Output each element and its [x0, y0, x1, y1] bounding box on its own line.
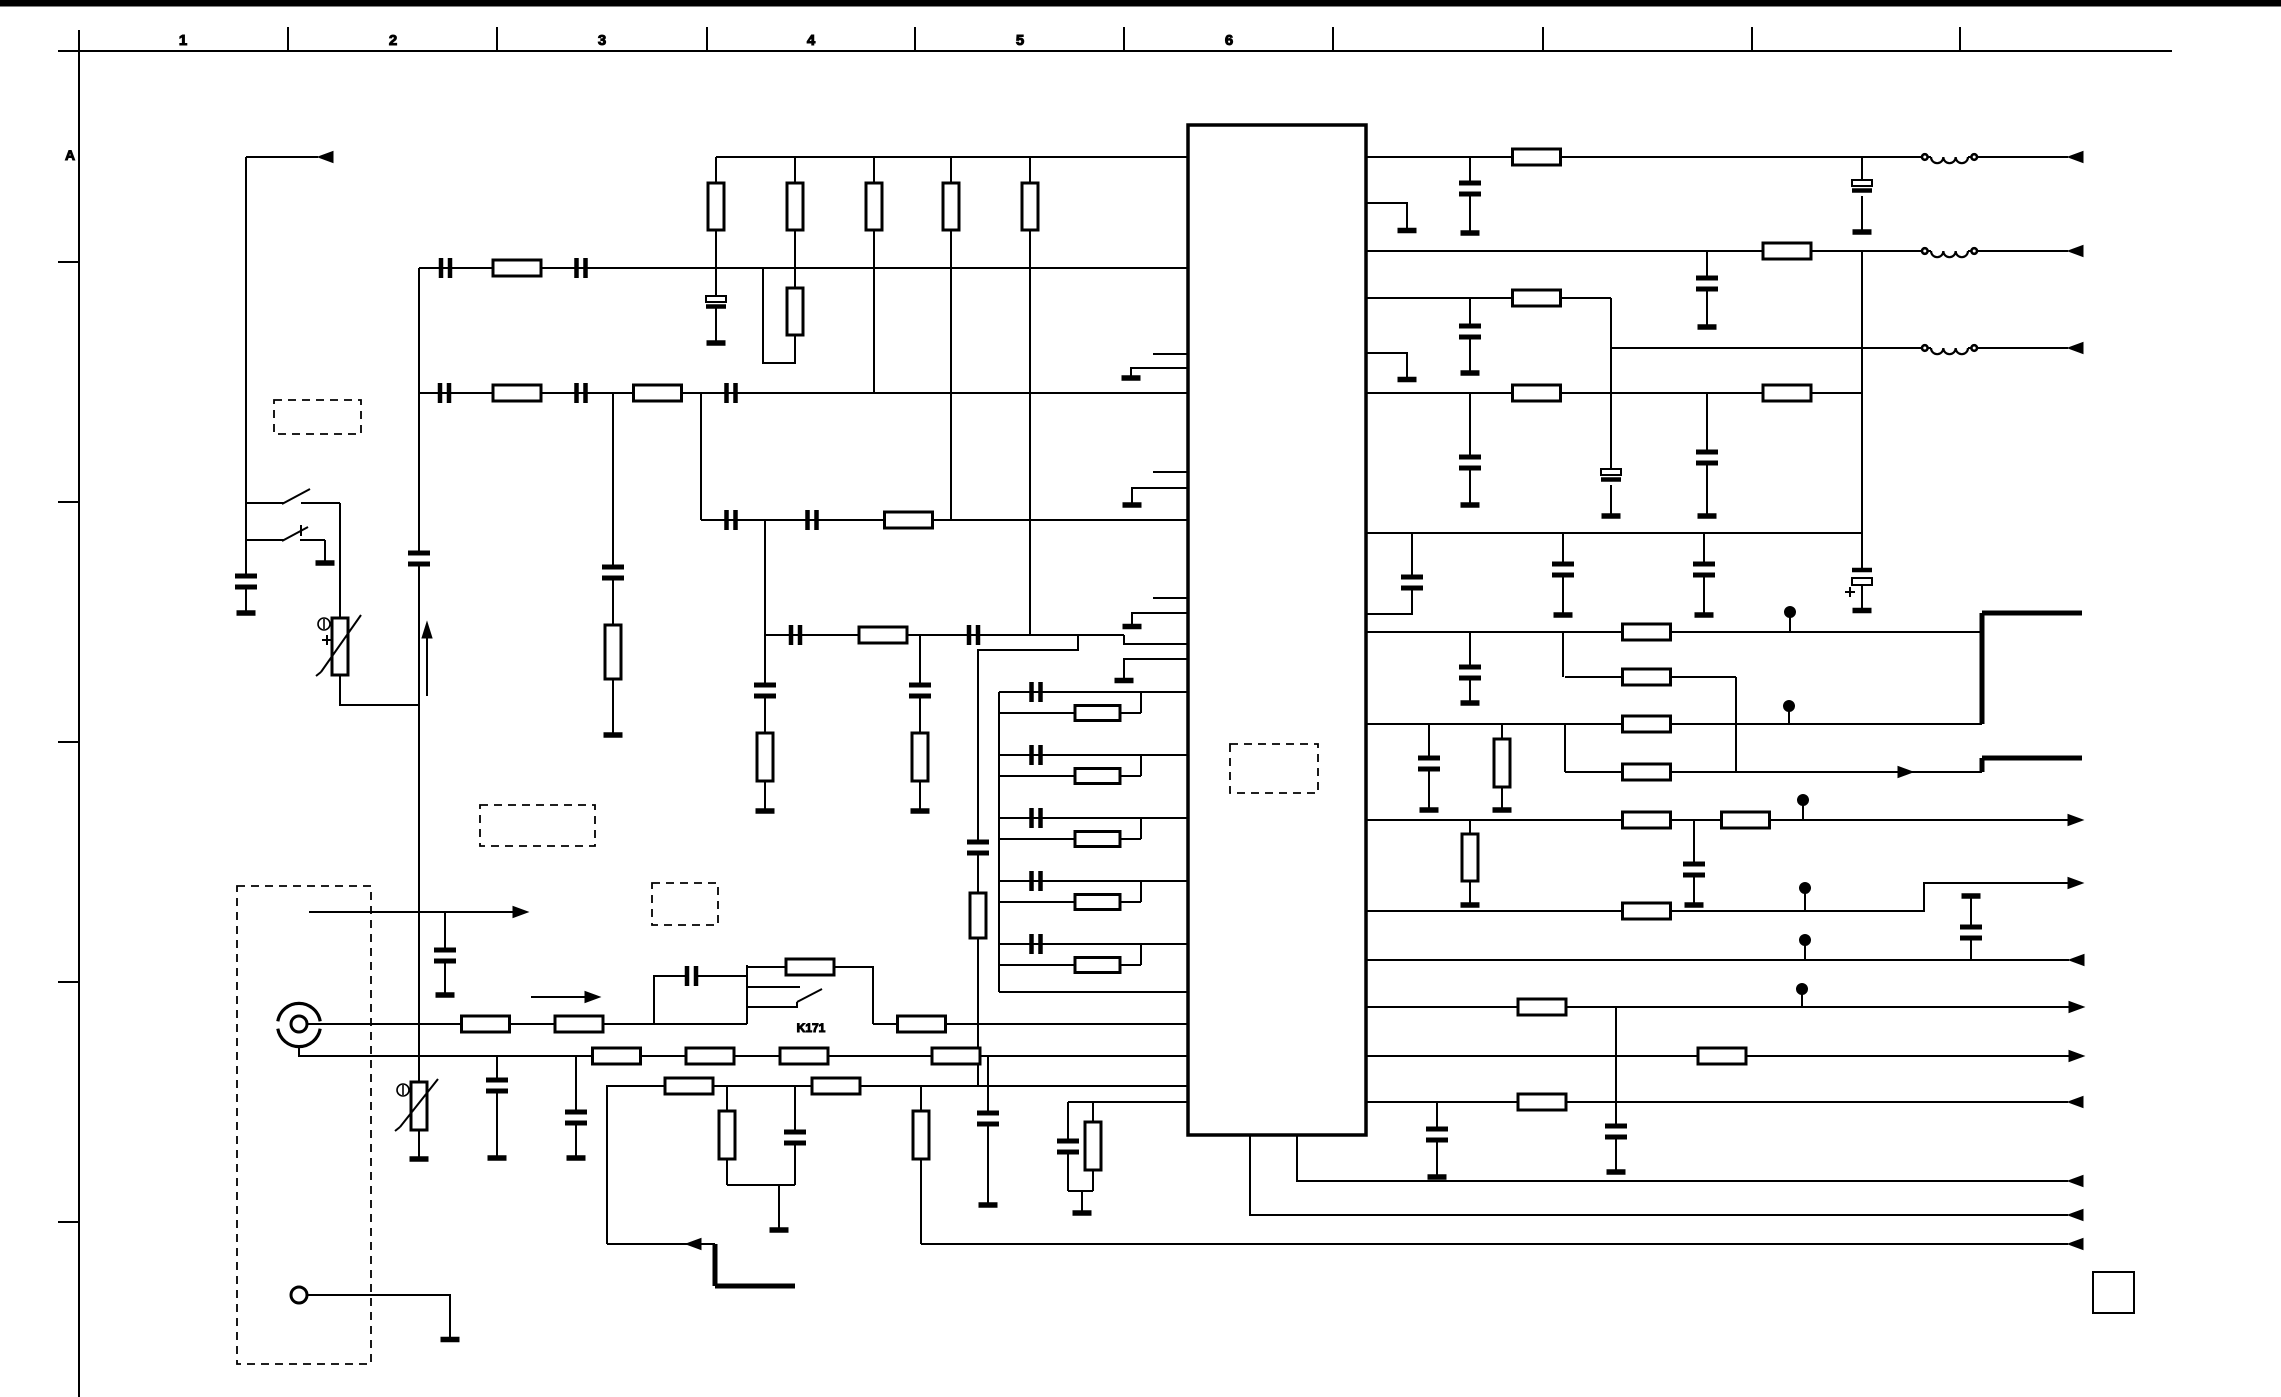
wire pin1297 row1181: [1297, 1135, 2068, 1181]
wire col419: [418, 564, 420, 1082]
wire K171 up: [654, 976, 685, 1024]
wire col951 top: [950, 157, 952, 183]
ground bar col1971: [1962, 893, 1981, 899]
ruler tick 2: [496, 27, 498, 51]
wire comb res row 4: [999, 901, 1141, 903]
ground bar ublock: [1073, 1210, 1092, 1216]
wire col1611 lead: [1610, 485, 1612, 514]
capacitor C1437: [1426, 1129, 1448, 1140]
ruler label 1: [179, 32, 187, 49]
wire col1437: [1436, 1102, 1438, 1129]
wire col727: [726, 1086, 728, 1111]
label K171: [797, 1021, 826, 1035]
wire row533: [1366, 532, 1862, 534]
resistor R-col1470-row820: [1462, 834, 1478, 881]
capacitor C-row520-a: [727, 510, 736, 530]
wire comb cap row 4: [999, 880, 1188, 882]
wire col445 lead: [444, 961, 446, 993]
wire col795b: [794, 1086, 796, 1132]
ground bar stem765: [770, 1227, 789, 1233]
wire col716 top: [715, 157, 717, 183]
switch K171 contact low: [747, 1002, 797, 1007]
capacitor C-comb2: [1032, 745, 1041, 765]
ground bar col576: [567, 1155, 586, 1161]
wire bus157: [716, 156, 1188, 158]
wire col1971 lead: [1970, 898, 1972, 927]
resistor R-L2-a: [593, 1048, 641, 1064]
wire RT1 bottom: [340, 675, 418, 705]
wire col1470-row157 lead: [1469, 194, 1471, 231]
arrow node-A left: [318, 152, 333, 163]
wire col1707-row393: [1706, 393, 1708, 452]
dashed box center: [652, 883, 718, 925]
capacitor C-col765: [754, 685, 776, 696]
wire comb link 3: [1140, 818, 1142, 839]
wire col613 lead: [612, 679, 614, 733]
resistor R-L2-d: [932, 1048, 980, 1064]
capacitor C1563: [1552, 564, 1574, 575]
wire col795 U-loop: [763, 268, 795, 363]
svg-text:2: 2: [389, 32, 397, 49]
wire col1616 lead: [1615, 1137, 1617, 1170]
wire comb bottom row: [999, 991, 1188, 993]
capacitor C1694: [1683, 864, 1705, 875]
capacitor C-row520-b: [808, 510, 817, 530]
wire S1a right: [301, 502, 340, 504]
row label A: [65, 147, 75, 163]
wire col1470-row820 lead: [1469, 881, 1471, 903]
wire col1694 lead: [1693, 875, 1695, 903]
wire col1563-row533: [1562, 533, 1564, 564]
capacitor C-row393-b: [577, 383, 586, 403]
arrow row1215 left: [2068, 1210, 2083, 1221]
capacitor C1707-row393: [1696, 452, 1718, 463]
ground bar col445: [436, 992, 455, 998]
wire comb cap row 3: [999, 817, 1188, 819]
ruler tick 7: [1542, 27, 1544, 51]
wire ublock row: [1068, 1101, 1188, 1103]
wire comb cap row 1: [999, 691, 1188, 693]
wire pin1250 row1215: [1250, 1135, 2068, 1215]
wire link1736: [1735, 677, 1737, 772]
inductor FB2: [1922, 248, 1977, 257]
wire col795 top: [794, 157, 796, 183]
ground bar col1437: [1428, 1174, 1447, 1180]
ground bar col497: [488, 1155, 507, 1161]
ground bar C1862: [1853, 608, 1872, 614]
wire col701: [700, 393, 702, 520]
left tick 5: [58, 1221, 79, 1223]
resistor R-col874: [866, 183, 882, 230]
wire comb link 5: [1140, 944, 1142, 965]
resistor R-ublock: [1085, 1122, 1101, 1170]
resistor R-L3-a: [665, 1078, 713, 1094]
wire K171 res row: [747, 966, 786, 968]
border ruler line: [58, 50, 2172, 52]
wire row820: [1366, 819, 2069, 821]
wire comb res row 5: [999, 964, 1141, 966]
arrow row911 end: [2068, 878, 2083, 889]
resistor R-L2-b: [686, 1048, 734, 1064]
wire col576 lead: [575, 1123, 577, 1156]
wire row635 jog: [1124, 635, 1188, 644]
node dot row628: [1785, 607, 1796, 633]
arrow row912 right: [513, 907, 528, 918]
wire col1470-row628: [1469, 632, 1471, 667]
wire col576: [575, 1056, 577, 1112]
resistor R-col795a: [787, 183, 803, 230]
arrow row1056 end: [2069, 1051, 2084, 1062]
ground bar p353: [1398, 377, 1417, 383]
ground bar col1862-row157: [1853, 229, 1872, 235]
resistor R-row635: [859, 627, 907, 643]
resistor R-L3-b: [812, 1078, 860, 1094]
resistor R-L1-a: [462, 1016, 510, 1032]
wire col445: [444, 912, 446, 950]
wire col1030 down: [1029, 230, 1031, 635]
capacitor C1470-row157: [1459, 183, 1481, 194]
capacitor C1862 electrolytic: [1852, 570, 1872, 585]
ruler label 5: [1016, 32, 1024, 49]
switch S1a blade: [282, 489, 310, 504]
wire ublock resleg: [1092, 1102, 1094, 1122]
wire col765 below: [764, 635, 766, 685]
resistor R-row393-b: [634, 385, 682, 401]
resistor R-row1056: [1698, 1048, 1746, 1064]
resistor R-L1-c: [898, 1016, 946, 1032]
wire row520: [701, 519, 1188, 521]
ruler tick 5: [1123, 27, 1125, 51]
resistor R-col921: [913, 1111, 929, 1159]
capacitor C-K171: [687, 966, 696, 986]
capacitor C1470-row628: [1459, 667, 1481, 678]
wire col419 upper: [418, 268, 420, 553]
resistor R-row628: [1623, 624, 1671, 640]
wire row724: [1366, 723, 1982, 725]
capacitor C-row635-b: [969, 625, 978, 645]
resistor R-row298: [1513, 290, 1561, 306]
wire stem765: [778, 1185, 780, 1228]
wire col1694-row820: [1693, 820, 1695, 864]
wire col1704 lead: [1703, 575, 1705, 613]
wire row393-right: [1366, 392, 1862, 394]
ground bar col1707-row393: [1698, 513, 1717, 519]
wire comb feed: [978, 635, 1078, 842]
ground bar S1b: [316, 560, 335, 566]
dashed box mid-left: [480, 805, 595, 846]
capacitor C1470-row393: [1459, 457, 1481, 468]
connector RCA outer: [278, 1003, 320, 1046]
wire row960: [1366, 959, 2069, 961]
wire row393-left: [418, 392, 1188, 394]
arrow row157 left: [2068, 152, 2083, 163]
arrow flow L1: [531, 992, 600, 1003]
wire row251: [1366, 250, 2068, 252]
wire comb res row 2: [999, 775, 1141, 777]
wire comb-left down: [977, 938, 979, 1086]
ruler label 3: [598, 32, 606, 49]
switch K171 blade: [797, 989, 822, 1002]
wire col1862 main: [1861, 251, 1863, 533]
ground bar col988: [979, 1202, 998, 1208]
wire thick bus2 out: [1982, 756, 2082, 761]
capacitor C-comb3: [1032, 808, 1041, 828]
wire col874 down: [873, 230, 875, 393]
wire col1611: [1610, 298, 1612, 469]
capacitor C-col716 boxcap: [706, 296, 726, 307]
capacitor C-col795b: [784, 1132, 806, 1143]
left tick 3: [58, 741, 79, 743]
resistor R-comb1: [1075, 706, 1120, 721]
wire row1244 left: [607, 1243, 715, 1245]
svg-text:K171: K171: [797, 1021, 826, 1035]
ground bar col1704: [1695, 612, 1714, 618]
wire C-x246 lead: [245, 587, 247, 611]
ground bar col1616: [1607, 1169, 1626, 1175]
varistor RT1 body: [316, 615, 361, 676]
resistor R-row1007: [1518, 999, 1566, 1015]
wire row628: [1366, 631, 1982, 633]
capacitor C-comb5: [1032, 934, 1041, 954]
wire L1 right: [873, 1023, 1188, 1025]
varistor RT1 plus mark: [322, 635, 332, 645]
wire row348: [1611, 347, 2068, 349]
ruler tick 6: [1332, 27, 1334, 51]
arrow row348 left: [2068, 343, 2083, 354]
capacitor C-col445: [434, 950, 456, 961]
dashed box connector: [237, 886, 371, 1364]
wire comb cap row 5: [999, 943, 1188, 945]
capacitor C-row393-c: [727, 383, 736, 403]
wire thick bus2: [1980, 758, 1985, 772]
wire row268: [419, 267, 1188, 269]
wire col1470-row820: [1469, 820, 1471, 834]
arrow row772 mid: [1898, 767, 1913, 778]
wire col1429 lead: [1428, 769, 1430, 808]
ruler tick 9: [1959, 27, 1961, 51]
ground bar col1470-row157: [1461, 230, 1480, 236]
wire col497 lead: [496, 1091, 498, 1156]
left tick 1: [58, 261, 79, 263]
wire col765 lead: [764, 781, 766, 809]
ground bar col1470-row393: [1461, 502, 1480, 508]
ground bar col1707-row251: [1698, 324, 1717, 330]
resistor R-comb3: [1075, 832, 1120, 847]
resistor R-col795b: [787, 288, 803, 335]
wire col1502: [1501, 724, 1503, 739]
arrow row1244 left: [2068, 1239, 2083, 1250]
switch S1a contact left: [246, 502, 284, 504]
wire col1470-row393 lead: [1469, 468, 1471, 503]
ground step p203: [1366, 203, 1407, 228]
capacitor C-col920: [909, 685, 931, 696]
capacitor C1971: [1960, 927, 1982, 938]
ground bar p488: [1123, 502, 1142, 508]
wire comb bus: [998, 692, 1000, 992]
arrow row1244 mid: [686, 1239, 701, 1250]
ground bar col1470-row298: [1461, 370, 1480, 376]
wire col795b lead: [794, 1143, 796, 1185]
ruler tick 4: [914, 27, 916, 51]
adjust arrow x427: [422, 622, 432, 696]
wire K171 node-left: [746, 965, 748, 1024]
node dot row1007: [1797, 984, 1808, 1008]
wire ublock capleg: [1067, 1102, 1069, 1141]
resistor R-row157: [1513, 149, 1561, 165]
wire arrow-row912: [309, 911, 513, 913]
capacitor C-row393-a: [440, 383, 449, 403]
wire row1102-right: [1366, 1101, 2068, 1103]
resistor R-row268: [493, 260, 541, 276]
switch K171 contact up: [747, 986, 800, 988]
resistor R-row820-a: [1623, 812, 1671, 828]
wire C1862 lead: [1861, 585, 1863, 608]
wire col727 lead: [726, 1159, 728, 1185]
wire col613: [612, 393, 614, 567]
capacitor C-row268-b: [577, 258, 586, 278]
capacitor C-row268-a: [441, 258, 450, 278]
capacitor C-col576: [565, 1112, 587, 1123]
varistor RT2 circle1 mark: [397, 1084, 409, 1096]
wire S1b stub down: [324, 540, 326, 561]
wire row298: [1366, 297, 1611, 299]
wire L1 center: [307, 1023, 747, 1025]
wire col765: [764, 520, 766, 635]
capacitor C1707-row251: [1696, 278, 1718, 289]
IC U1 inner dashed box: [1230, 744, 1318, 793]
wire col921 lead: [920, 1159, 922, 1244]
ground bar col1563: [1554, 612, 1573, 618]
wire col1707-row251: [1706, 251, 1708, 278]
varistor RT2 body: [395, 1079, 438, 1131]
capacitor C-col988: [977, 1113, 999, 1124]
square marker bottom-right: [2093, 1272, 2134, 1313]
wire K171 res right: [834, 967, 873, 1024]
wire col1971 up: [1970, 938, 1972, 960]
wire col988: [987, 1056, 989, 1113]
wire IC stub p472: [1153, 471, 1188, 473]
ground bar col613: [604, 732, 623, 738]
wire row1007: [1366, 1006, 2069, 1008]
arrow row820 end: [2068, 815, 2083, 826]
wire node-A out: [246, 156, 318, 158]
ruler label 4: [807, 32, 816, 49]
wire RT2 lead: [418, 1130, 420, 1157]
svg-text:3: 3: [598, 32, 606, 49]
wire col1502 lead: [1501, 787, 1503, 808]
wire col1862-row157 lead: [1861, 196, 1863, 230]
wire comb link 2: [1140, 755, 1142, 776]
wire col1470-row298: [1469, 298, 1471, 326]
resistor R-row393-r1: [1513, 385, 1561, 401]
capacitor C1412: [1401, 577, 1423, 588]
resistor R-row724: [1623, 716, 1671, 732]
wire RCA shield: [299, 1046, 1188, 1056]
resistor R-row251: [1763, 243, 1811, 259]
resistor R-L2-c: [780, 1048, 828, 1064]
wire col716 lead: [715, 308, 717, 341]
wire IC stub p598: [1153, 597, 1188, 599]
wire ublock resleg2: [1092, 1170, 1094, 1191]
wire col920 lead: [919, 781, 921, 809]
wire col988 lead: [987, 1124, 989, 1203]
resistor R-col727: [719, 1111, 735, 1159]
capacitor C1611 boxcap: [1601, 469, 1621, 480]
wire col1616: [1615, 1007, 1617, 1126]
arrow row1102 left: [2068, 1097, 2083, 1108]
capacitor C-x246: [235, 576, 257, 587]
ground bar p368: [1122, 375, 1141, 381]
capacitor C-ublock: [1057, 1141, 1079, 1152]
capacitor C-comb-left: [967, 842, 989, 853]
capacitor C1616: [1605, 1126, 1627, 1137]
resistor R-row520: [885, 512, 933, 528]
ruler tick 3: [706, 27, 708, 51]
ground bar col1470-row628: [1461, 700, 1480, 706]
wire col795 mid: [794, 230, 796, 288]
switch S1b blade: [282, 525, 308, 541]
wire col1030 top: [1029, 157, 1031, 183]
inductor FB3: [1922, 345, 1977, 354]
wire row911: [1366, 883, 2069, 911]
capacitor C-col419: [408, 553, 430, 564]
wire pin2: [307, 1295, 450, 1337]
node dot row960: [1800, 935, 1811, 961]
resistor R-K171: [786, 959, 834, 975]
wire col951 down: [950, 230, 952, 520]
wire col1437 lead: [1436, 1140, 1438, 1175]
wire ublock stem: [1081, 1191, 1083, 1211]
ground bar col1429: [1420, 807, 1439, 813]
wire comb res row 1: [999, 712, 1141, 714]
wire row1244 right: [921, 1243, 2068, 1245]
node dot row820: [1798, 795, 1809, 821]
wire col613 mid: [612, 578, 614, 625]
wire col920: [919, 635, 921, 685]
wire comb link 1: [1140, 692, 1142, 713]
wire col1412: [1411, 533, 1413, 577]
connector pin2: [291, 1287, 307, 1303]
wire col497: [496, 1056, 498, 1080]
wire thick bottom: [715, 1284, 795, 1289]
ground bar p659: [1115, 678, 1134, 684]
wire col1862 to C: [1861, 533, 1863, 570]
resistor R-col1030: [1022, 183, 1038, 230]
arrow row1007 end: [2069, 1002, 2084, 1013]
resistor R-L1-b: [555, 1016, 603, 1032]
ground bar col765: [756, 808, 775, 814]
resistor R-col1502: [1494, 739, 1510, 787]
ruler tick 1: [287, 27, 289, 51]
ground step p488: [1132, 488, 1188, 503]
arrow row1181 left: [2068, 1176, 2083, 1187]
wire row1056-right: [1366, 1055, 2069, 1057]
border left line: [78, 30, 80, 1397]
arrow row960 left: [2069, 955, 2084, 966]
wire col1470-row393: [1469, 393, 1471, 457]
switch S1b contact left: [246, 539, 284, 541]
wire col1707-row251 lead: [1706, 289, 1708, 325]
wire K171 cap-node: [696, 975, 747, 977]
ground bar pin2: [441, 1337, 460, 1343]
svg-text:A: A: [65, 147, 75, 163]
connector RCA inner: [291, 1016, 307, 1032]
plus mark C1862: [1845, 587, 1855, 597]
wire IC stub p354: [1153, 353, 1188, 355]
resistor R-comb2: [1075, 769, 1120, 784]
ground step p353: [1366, 353, 1407, 377]
capacitor C-comb1: [1032, 682, 1041, 702]
